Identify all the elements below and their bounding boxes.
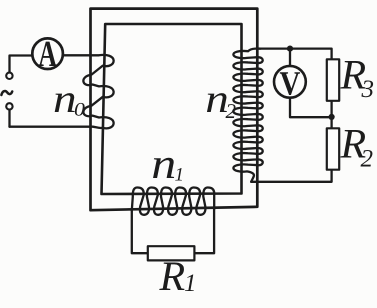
svg-text:1: 1 (175, 164, 185, 185)
svg-text:A: A (38, 34, 57, 75)
svg-text:0: 0 (74, 100, 86, 121)
svg-text:2: 2 (226, 99, 237, 123)
svg-text:V: V (279, 66, 300, 103)
svg-text:R: R (159, 254, 186, 300)
svg-text:n: n (151, 141, 176, 188)
svg-text:1: 1 (184, 270, 197, 297)
svg-text:3: 3 (361, 76, 375, 103)
svg-text:2: 2 (361, 145, 374, 172)
